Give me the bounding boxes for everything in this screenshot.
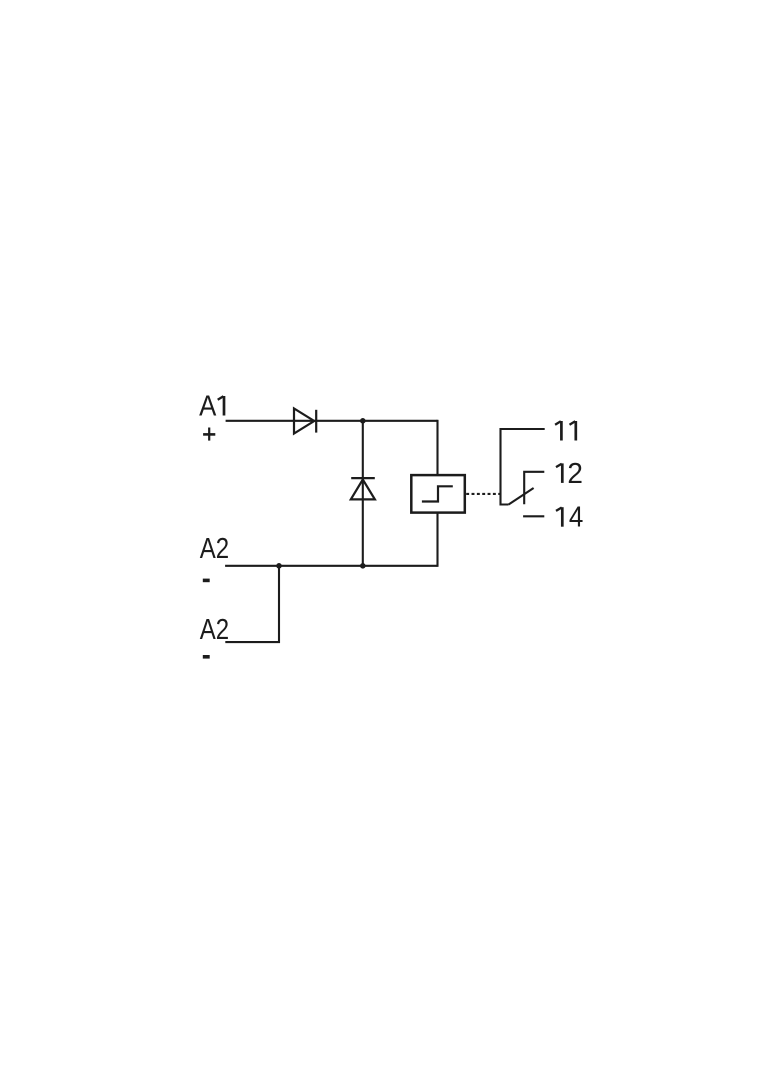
wire relay coil bottom to node B line <box>436 513 438 567</box>
svg-text:A2: A2 <box>200 533 229 565</box>
suppressor diode D2 cathode bar <box>351 477 375 479</box>
wire top corner down to relay coil <box>436 420 438 475</box>
node B junction dot (suppressor to A2 line) <box>360 563 366 569</box>
wire second A2 up to node C <box>225 566 279 642</box>
label - (second A2 polarity) <box>203 655 210 659</box>
node C junction dot (A2 branch) <box>276 563 282 569</box>
svg-text:A: A <box>199 391 217 423</box>
moving contact arm <box>509 488 534 505</box>
svg-text:2: 2 <box>567 458 583 490</box>
wire node A down to node B (suppressor branch) <box>362 421 364 566</box>
wire A2 line <box>225 565 437 567</box>
diode D1 triangle <box>294 409 314 434</box>
suppressor diode D2 triangle <box>351 480 375 500</box>
wire A1 to node A <box>226 420 438 422</box>
latching step symbol inside K1 <box>422 486 453 501</box>
svg-text:A2: A2 <box>200 614 229 646</box>
wire terminal 14 stub <box>523 515 544 517</box>
dashed actuation link from coil to contact <box>466 493 500 495</box>
label - (first A2 polarity) <box>203 579 210 583</box>
label 14 <box>556 507 562 526</box>
diode D1 cathode bar <box>315 410 317 433</box>
label 11 <box>555 421 561 441</box>
node A junction dot top <box>360 418 366 424</box>
label + (A1 polarity) <box>203 433 215 436</box>
wire terminal 11 and common contact pole <box>501 429 545 505</box>
wire terminal 12 hook <box>524 472 544 505</box>
label 12 <box>556 463 562 483</box>
svg-text:4: 4 <box>569 502 583 534</box>
relay coil box K1 <box>411 475 465 512</box>
